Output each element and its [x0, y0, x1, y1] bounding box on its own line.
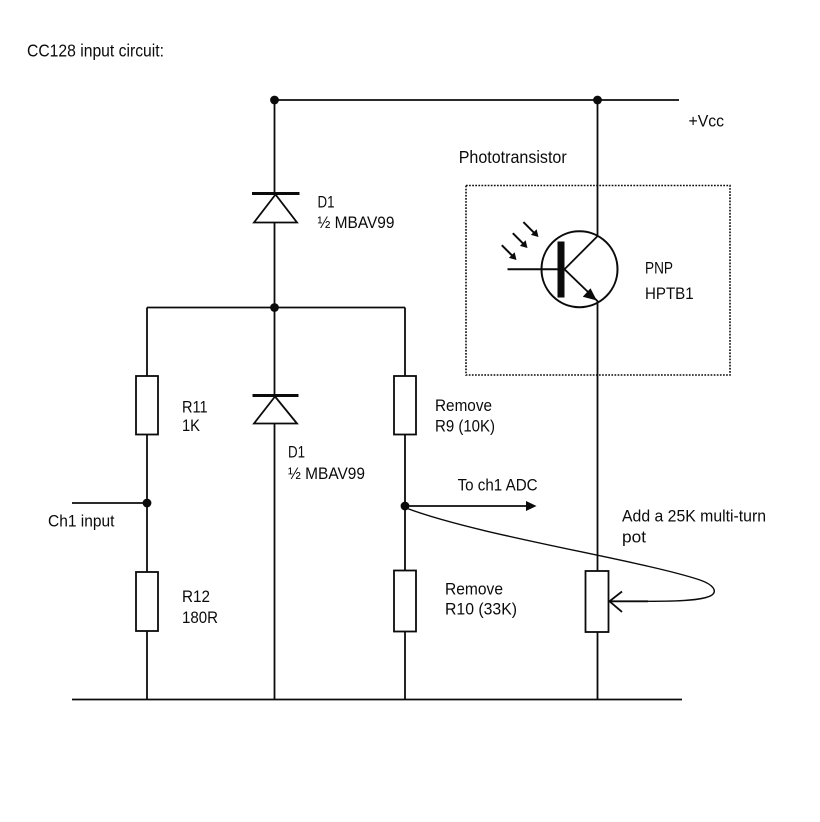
svg-text:D1: D1: [318, 193, 335, 211]
diode D1 (lower): [253, 396, 299, 424]
svg-text:R10 (33K): R10 (33K): [445, 601, 517, 619]
svg-text:Add a 25K multi-turn: Add a 25K multi-turn: [622, 508, 766, 526]
light arrow 3: [523, 222, 534, 233]
transistor base bar: [558, 242, 565, 298]
wire right branch down to R9: [404, 308, 406, 377]
svg-text:PNP: PNP: [645, 259, 673, 277]
wire R9 to ADC node: [404, 435, 406, 571]
svg-text:R11: R11: [182, 398, 208, 416]
wire Ch1 input stub: [72, 502, 147, 504]
svg-text:D1: D1: [288, 444, 305, 462]
svg-text:Phototransistor: Phototransistor: [459, 147, 567, 167]
resistor R9: [394, 376, 416, 435]
svg-text:½ MBAV99: ½ MBAV99: [318, 214, 395, 232]
wire pot to bottom rail: [597, 632, 599, 700]
wire ADC arrow: [405, 505, 527, 507]
wire diode D1 to mid junction: [274, 223, 276, 308]
svg-text:Ch1 input: Ch1 input: [48, 513, 115, 531]
wire R12 to bottom rail: [146, 631, 148, 700]
svg-text:R12: R12: [182, 588, 210, 606]
svg-text:Remove: Remove: [445, 581, 503, 599]
wire left branch down to R11: [146, 308, 148, 377]
wire mid horizontal: [147, 307, 405, 309]
svg-text:CC128 input circuit:: CC128 input circuit:: [27, 41, 164, 61]
transistor emitter line with arrow: [565, 269, 598, 301]
light arrow 2: [513, 233, 524, 244]
resistor R12: [136, 572, 158, 631]
node junction top-right: [593, 96, 602, 105]
wire top rail to transistor collector: [597, 100, 599, 235]
wire bottom rail: [72, 699, 682, 701]
phototransistor dashed box: [466, 186, 730, 376]
svg-text:180R: 180R: [182, 609, 218, 627]
potentiometer body: [586, 571, 609, 632]
resistor R11: [136, 376, 158, 435]
node junction top-left: [270, 96, 279, 105]
transistor Q1 circle: [542, 231, 618, 307]
svg-text:To ch1 ADC: To ch1 ADC: [458, 477, 538, 495]
node ADC: [401, 502, 410, 511]
transistor collector line: [565, 236, 598, 270]
wire R10 to bottom rail: [404, 632, 406, 700]
wire mid junction down to diode D1 lower: [274, 308, 276, 396]
wire diode lower to bottom rail: [274, 424, 276, 700]
transistor base lead: [508, 268, 558, 270]
svg-text:1K: 1K: [182, 417, 200, 435]
svg-text:HPTB1: HPTB1: [645, 285, 694, 303]
diode D1 (upper): [252, 194, 300, 223]
node mid junction: [270, 303, 279, 312]
wire emitter down to pot: [597, 302, 599, 572]
wire top rail: [275, 99, 680, 101]
wire from top rail down to diode D1: [274, 100, 276, 193]
wire R11 to Ch1 node: [146, 435, 148, 504]
svg-text:R9 (10K): R9 (10K): [435, 418, 495, 436]
wire Ch1 node to R12: [146, 503, 148, 572]
svg-text:pot: pot: [622, 529, 646, 547]
wire leader curve from ADC node to pot wiper: [406, 508, 714, 601]
resistor R10: [394, 571, 416, 632]
svg-text:+Vcc: +Vcc: [689, 113, 725, 131]
node Ch1: [143, 499, 152, 508]
svg-text:½ MBAV99: ½ MBAV99: [288, 465, 365, 483]
light arrow 1: [502, 245, 513, 256]
potentiometer wiper arrow: [610, 592, 649, 612]
svg-text:Remove: Remove: [435, 397, 492, 415]
